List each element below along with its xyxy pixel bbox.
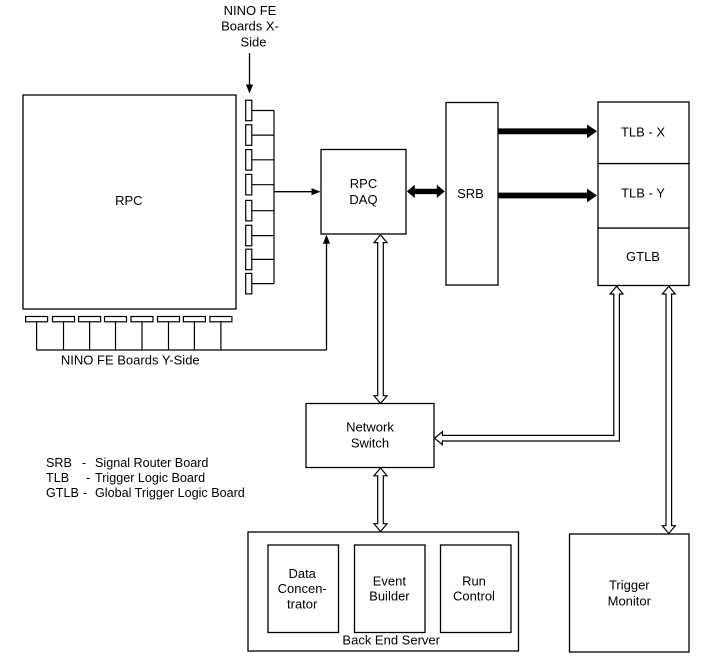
NINO FE board Y2	[53, 317, 75, 322]
TLB-Y box	[598, 164, 689, 229]
wire from board X7 to bracket	[252, 258, 274, 260]
svg-text:Event: Event	[373, 573, 407, 588]
svg-text:TLB - Y: TLB - Y	[621, 186, 665, 201]
RPC box	[23, 95, 236, 309]
arrow bracket to RPC DAQ	[274, 188, 321, 195]
NINO FE board X6	[246, 225, 252, 246]
Event Builder box	[355, 545, 426, 633]
svg-text:Run: Run	[462, 573, 486, 588]
NINO FE board Y5	[131, 317, 153, 322]
svg-text:-: -	[83, 486, 87, 500]
legend GTLB	[46, 486, 245, 500]
thick arrow SRB to TLB-X	[498, 124, 597, 138]
hollow arrow RPC DAQ - Network Switch	[374, 235, 387, 404]
svg-text:Concen-: Concen-	[278, 581, 327, 596]
NINO FE board Y4	[105, 317, 127, 322]
GTLB box	[598, 228, 689, 285]
label: NINO FE Boards Y-Side	[61, 353, 200, 368]
svg-text:RPC: RPC	[115, 193, 142, 208]
wire from board X3 to bracket	[252, 159, 274, 161]
legend SRB	[46, 456, 208, 470]
NINO FE board X4	[246, 174, 252, 195]
hollow arrow GTLB - Network Switch (bent)	[435, 286, 623, 445]
svg-text:NINO FE: NINO FE	[224, 3, 277, 18]
NINO FE board Y6	[158, 317, 180, 322]
svg-text:Switch: Switch	[351, 436, 389, 451]
NINO FE board X7	[246, 249, 252, 270]
svg-text:TLB: TLB	[46, 471, 69, 485]
hollow arrow GTLB - Trigger Monitor	[662, 286, 675, 533]
wire from board X2 to bracket	[252, 134, 274, 136]
Trigger Monitor box	[570, 534, 690, 652]
Network Switch box	[306, 404, 434, 468]
svg-text:-: -	[82, 456, 86, 470]
TLB-X box	[598, 102, 689, 164]
hollow arrow Network Switch - Back End Server	[374, 468, 387, 532]
SRB box	[446, 103, 498, 286]
NINO FE board Y7	[183, 317, 205, 322]
wire from board X8 to bracket	[252, 283, 274, 285]
NINO FE board Y8	[210, 317, 232, 322]
svg-text:Back End Server: Back End Server	[342, 632, 440, 647]
svg-text:trator: trator	[287, 596, 318, 611]
NINO FE board X1	[246, 100, 252, 121]
svg-text:Boards X-: Boards X-	[221, 19, 279, 34]
svg-text:SRB: SRB	[46, 456, 72, 470]
label: NINO FE Boards X-Side	[221, 3, 279, 49]
wire from board Y3 to bus	[89, 322, 91, 350]
wire from board X4 to bracket	[252, 184, 274, 186]
RPC DAQ box	[321, 150, 406, 235]
svg-text:Trigger Logic Board: Trigger Logic Board	[95, 471, 205, 485]
wire from board Y7 to bus	[193, 322, 195, 350]
wire from board Y6 to bus	[168, 322, 170, 350]
wire from board X5 to bracket	[252, 210, 274, 212]
svg-text:RPC: RPC	[350, 176, 377, 191]
Y-side bus wire	[37, 349, 327, 351]
wire from board Y4 to bus	[115, 322, 117, 350]
Run Control box	[441, 545, 512, 633]
NINO FE board Y1	[26, 317, 48, 322]
wire from board Y5 to bus	[141, 322, 143, 350]
svg-text:Builder: Builder	[369, 589, 410, 604]
Data Concentrator box	[268, 545, 339, 633]
svg-text:TLB - X: TLB - X	[621, 124, 665, 139]
NINO FE board X3	[246, 150, 252, 171]
svg-text:-: -	[86, 471, 90, 485]
wire from board Y2 to bus	[63, 322, 65, 350]
svg-text:GTLB: GTLB	[46, 486, 79, 500]
wire from board Y8 to bus	[220, 322, 222, 350]
thick arrow SRB to TLB-Y	[498, 189, 597, 203]
NINO FE board X5	[246, 200, 252, 221]
wire from board X1 to bracket	[252, 110, 274, 112]
svg-text:Signal Router Board: Signal Router Board	[95, 456, 208, 470]
legend TLB	[46, 471, 205, 485]
NINO FE board Y3	[79, 317, 101, 322]
bracket bus vertical (X-side)	[273, 110, 275, 283]
svg-text:Side: Side	[240, 34, 266, 49]
svg-text:Global Trigger Logic Board: Global Trigger Logic Board	[95, 486, 245, 500]
svg-text:DAQ: DAQ	[349, 192, 377, 207]
arrow Y-side bus to RPC DAQ	[323, 235, 330, 350]
NINO FE board X8	[246, 273, 252, 294]
arrow from X-side label to FE boards	[246, 53, 253, 94]
wire from board Y1 to bus	[36, 322, 38, 350]
thick arrow RPC DAQ - SRB	[407, 185, 445, 198]
svg-text:NINO FE Boards Y-Side: NINO FE Boards Y-Side	[61, 353, 200, 368]
svg-text:Data: Data	[288, 566, 316, 581]
svg-text:Network: Network	[346, 420, 394, 435]
svg-text:Control: Control	[453, 589, 495, 604]
svg-text:Trigger: Trigger	[609, 577, 650, 592]
wire from board X6 to bracket	[252, 235, 274, 237]
svg-text:SRB: SRB	[457, 186, 484, 201]
Back End Server box	[248, 532, 519, 651]
svg-text:GTLB: GTLB	[626, 249, 660, 264]
svg-text:Monitor: Monitor	[608, 594, 652, 609]
NINO FE board X2	[246, 125, 252, 146]
